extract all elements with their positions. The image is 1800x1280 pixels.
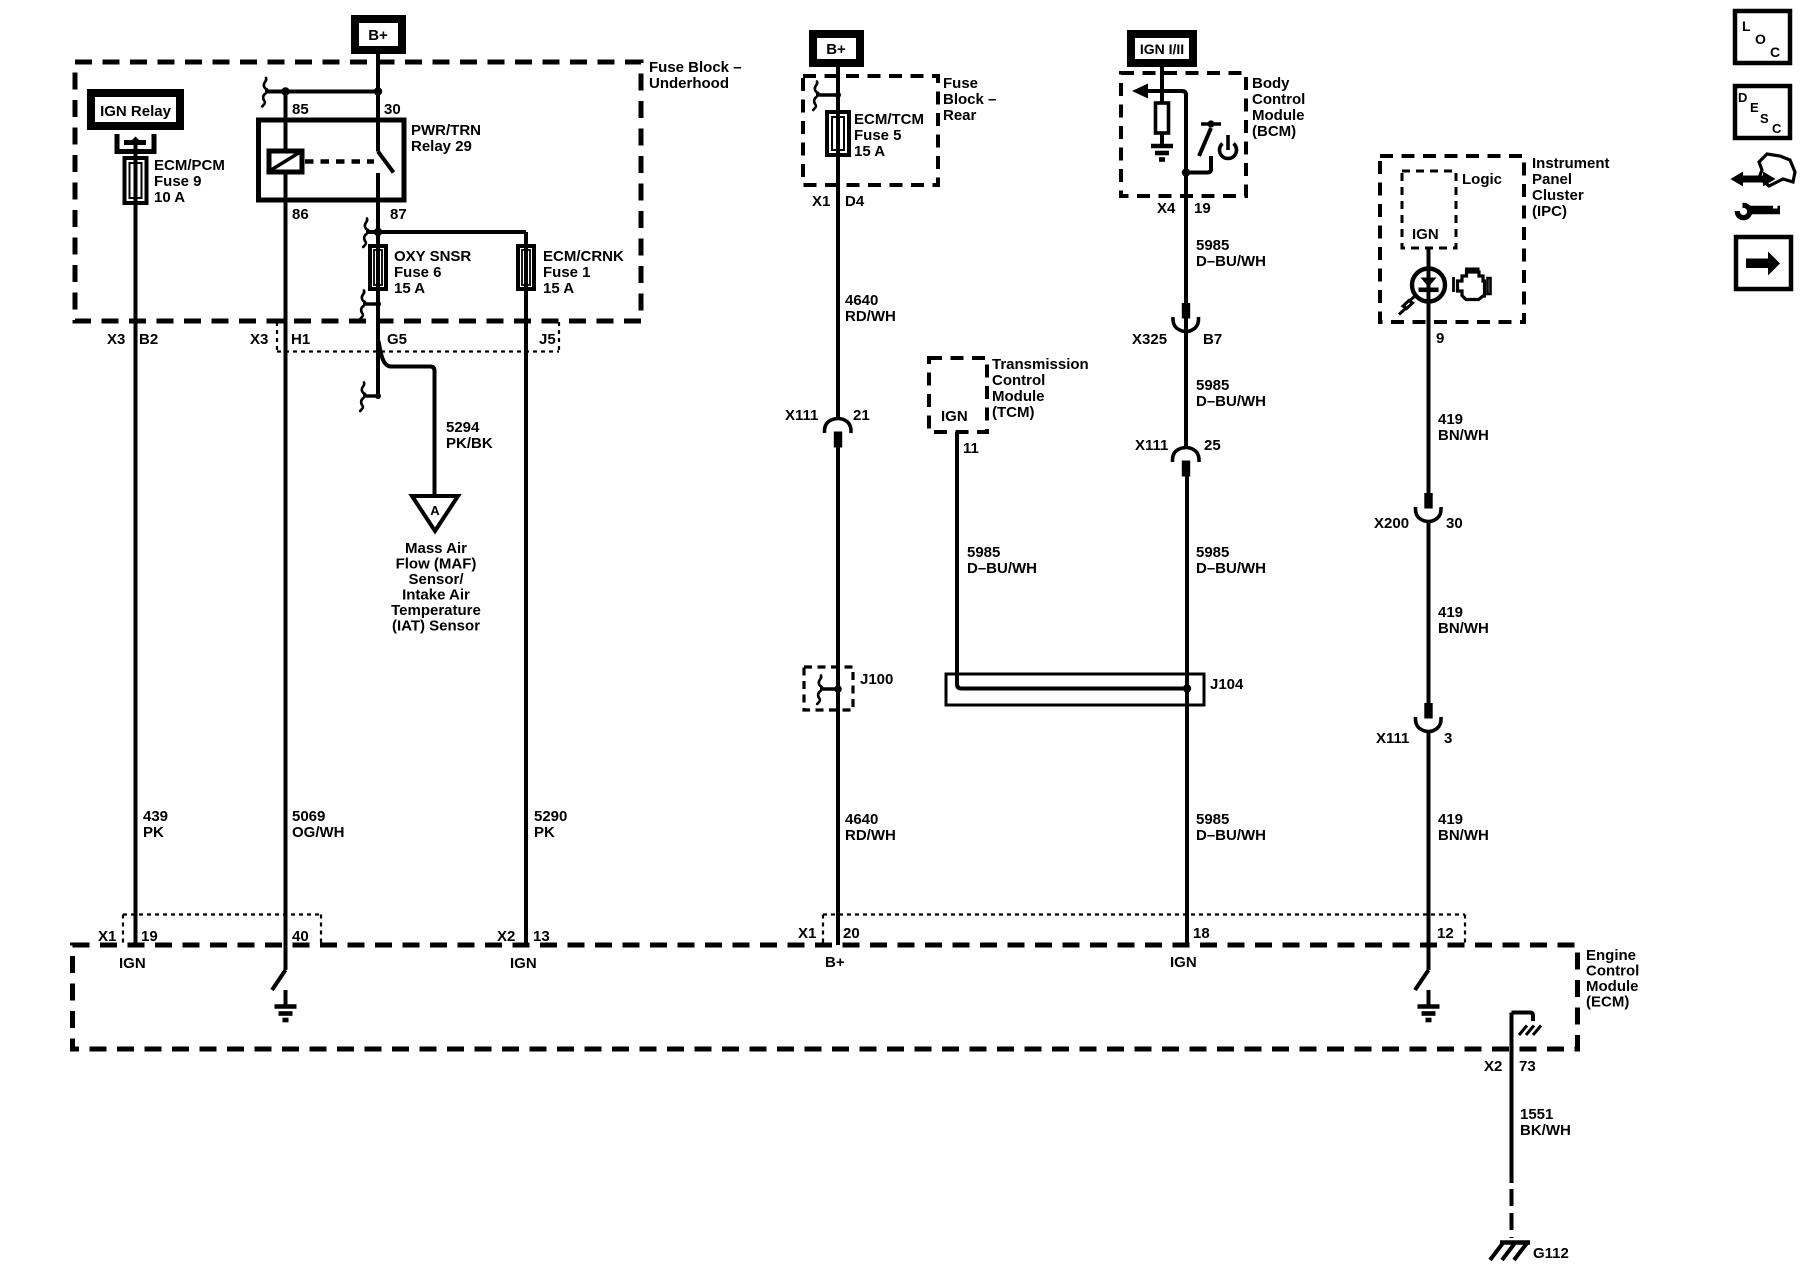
fuse F5 ECM/TCM Fuse 5 15A (827, 112, 849, 155)
relay K PWR/TRN Relay 29 box (259, 120, 405, 200)
svg-text:C: C (1770, 44, 1780, 60)
svg-text:10 A: 10 A (154, 189, 185, 206)
svg-text:419: 419 (1438, 604, 1463, 621)
svg-text:Instrument: Instrument (1532, 155, 1610, 172)
node B+ (rear feed) (809, 30, 864, 67)
connector label X111 25 (1135, 437, 1221, 454)
svg-text:BN/WH: BN/WH (1438, 620, 1489, 637)
hook continuation in J100 (817, 676, 842, 705)
svg-text:15 A: 15 A (854, 143, 885, 160)
wire pin87 to fuse1 (366, 230, 526, 234)
inline connector X111 terminal 3 (1415, 703, 1441, 732)
indicator lamp (LED) (1399, 269, 1445, 315)
svg-text:O: O (1755, 31, 1766, 47)
relay label PWR/TRN Relay 29 (411, 122, 481, 155)
svg-text:B+: B+ (826, 41, 846, 58)
svg-text:5985: 5985 (1196, 544, 1229, 561)
fuse F9 ECM/PCM Fuse 9 10A (125, 158, 147, 203)
svg-text:4640: 4640 (845, 292, 878, 309)
svg-text:(BCM): (BCM) (1252, 123, 1296, 140)
pin label X3 B2 (107, 331, 158, 348)
svg-text:Sensor/: Sensor/ (408, 571, 464, 588)
svg-text:B+: B+ (825, 954, 845, 971)
svg-text:15 A: 15 A (394, 280, 425, 297)
svg-text:5294: 5294 (446, 419, 480, 436)
svg-text:(TCM): (TCM) (992, 404, 1034, 421)
internal switch to ground (pin 12) (1415, 945, 1429, 990)
svg-text:B+: B+ (368, 27, 388, 44)
inline connector X200 terminal 30 (1415, 493, 1441, 522)
svg-text:15 A: 15 A (543, 280, 574, 297)
fuse block underhood box (75, 62, 641, 321)
svg-text:X1: X1 (98, 928, 116, 945)
junction node (1182, 168, 1190, 176)
svg-text:21: 21 (853, 407, 870, 424)
svg-text:(ECM): (ECM) (1586, 994, 1629, 1011)
svg-text:5985: 5985 (1196, 377, 1229, 394)
svg-text:X4: X4 (1157, 200, 1176, 217)
svg-text:J100: J100 (860, 671, 893, 688)
svg-text:ECM/TCM: ECM/TCM (854, 111, 924, 128)
svg-text:G5: G5 (387, 331, 407, 348)
pin label X3 H1 (250, 331, 310, 348)
wiring navigation icon (arrows over connector with wrench) (1731, 154, 1796, 218)
wire 419 BN/WH upper (1427, 301, 1431, 494)
svg-text:B2: B2 (139, 331, 158, 348)
wire label 5985 D-BU/WH (TCM) (967, 544, 1037, 577)
TCM box (929, 358, 987, 432)
svg-text:PK: PK (143, 824, 164, 841)
svg-text:Fuse 5: Fuse 5 (854, 127, 902, 144)
svg-text:1551: 1551 (1520, 1106, 1553, 1123)
svg-text:IGN: IGN (941, 408, 968, 425)
svg-text:A: A (430, 503, 440, 518)
connector bracket under IGN relay (117, 134, 154, 158)
wire label 5985 D-BU/WH (lower) (1196, 544, 1266, 577)
svg-text:Transmission: Transmission (992, 356, 1089, 373)
svg-text:40: 40 (292, 928, 309, 945)
svg-text:Relay 29: Relay 29 (411, 138, 472, 155)
svg-text:X2: X2 (497, 928, 515, 945)
wire 439 PK (fuse9 to ECM pin 19) (134, 203, 138, 945)
svg-text:Control: Control (1252, 91, 1305, 108)
wire 5985 BCM to X325 (1184, 173, 1188, 449)
svg-text:D–BU/WH: D–BU/WH (1196, 393, 1266, 410)
fuse F9 value label (154, 157, 225, 206)
svg-text:87: 87 (390, 206, 407, 223)
node B+ (underhood feed) (351, 15, 406, 54)
svg-text:Intake Air: Intake Air (402, 587, 470, 604)
TCM label (992, 356, 1089, 421)
svg-text:X3: X3 (250, 331, 268, 348)
forward arrow nav button (1736, 237, 1791, 289)
svg-text:IGN: IGN (119, 955, 146, 972)
svg-text:Body: Body (1252, 75, 1290, 92)
svg-text:18: 18 (1193, 925, 1210, 942)
ECM label (1586, 947, 1639, 1011)
hook continuation in rear fuse block (813, 82, 841, 111)
wire label 5985 D-BU/WH (mid) (1196, 377, 1266, 410)
junction node (281, 87, 289, 95)
wire 419 BN/WH mid (1427, 520, 1431, 704)
hook continuation below fuse6 (360, 291, 381, 320)
svg-text:ECM/PCM: ECM/PCM (154, 157, 225, 174)
svg-text:Mass Air: Mass Air (405, 540, 467, 557)
svg-text:X111: X111 (1135, 437, 1168, 454)
fuse block rear box (803, 76, 938, 185)
junction node (374, 228, 382, 236)
svg-text:Fuse 1: Fuse 1 (543, 264, 591, 281)
wire with left arrow (internal feed) (1132, 84, 1186, 173)
fuse F1 ECM/CRNK Fuse 1 15A (518, 246, 534, 289)
svg-text:D–BU/WH: D–BU/WH (1196, 827, 1266, 844)
svg-text:Panel: Panel (1532, 171, 1572, 188)
svg-text:30: 30 (1446, 515, 1463, 532)
connector label X200 30 (1374, 515, 1463, 532)
svg-text:12: 12 (1437, 925, 1454, 942)
wire label 5985 D-BU/WH (BCM) (1196, 237, 1266, 270)
svg-text:J5: J5 (539, 331, 556, 348)
wire label 439 PK (143, 808, 168, 841)
svg-text:PK: PK (534, 824, 555, 841)
wire 5985 to ECM pin 18 (1185, 476, 1189, 945)
svg-text:Rear: Rear (943, 107, 977, 124)
junction node (374, 87, 382, 95)
svg-text:3: 3 (1444, 730, 1452, 747)
svg-text:4640: 4640 (845, 811, 878, 828)
svg-text:H1: H1 (291, 331, 310, 348)
svg-text:BN/WH: BN/WH (1438, 427, 1489, 444)
svg-text:Control: Control (992, 372, 1045, 389)
svg-text:85: 85 (292, 101, 309, 118)
pin label X1 D4 (812, 193, 865, 210)
hook continuation at 87 node (363, 219, 368, 248)
hook continuation at wire end (360, 383, 381, 412)
fuse F5 value label (854, 111, 924, 160)
svg-text:Module: Module (1252, 107, 1305, 124)
svg-text:Logic: Logic (1462, 171, 1502, 188)
svg-text:D4: D4 (845, 193, 865, 210)
node IGN I/II (1127, 30, 1197, 67)
wire IGN I/II into BCM (1160, 67, 1164, 102)
fuse ECM/CRNK feed wire (524, 232, 528, 246)
svg-text:Module: Module (992, 388, 1045, 405)
IPC logic box (1402, 171, 1456, 248)
svg-text:ECM/CRNK: ECM/CRNK (543, 248, 624, 265)
svg-text:5985: 5985 (1196, 237, 1229, 254)
wire 5294 to MAF sensor (379, 341, 435, 497)
connector strip X1 (pins 19 40) (123, 915, 321, 946)
svg-text:5069: 5069 (292, 808, 325, 825)
ECM box (73, 945, 1578, 1049)
wire B+ to relay pin 30 (376, 54, 380, 152)
svg-text:D: D (1738, 90, 1747, 105)
wire label 419 BN/WH bottom (1438, 811, 1489, 844)
BCM box (1121, 73, 1246, 196)
svg-text:IGN: IGN (1412, 226, 1439, 243)
svg-text:Fuse 6: Fuse 6 (394, 264, 442, 281)
svg-text:E: E (1750, 100, 1759, 115)
splice J104 box (946, 674, 1204, 705)
svg-text:X200: X200 (1374, 515, 1409, 532)
svg-text:30: 30 (384, 101, 401, 118)
svg-text:19: 19 (1194, 200, 1211, 217)
hook continuation at 85 branch (262, 78, 267, 107)
svg-text:S: S (1760, 111, 1769, 126)
fuse block underhood label (649, 59, 742, 92)
fuse F6 OXY SNSR Fuse 6 15A (370, 246, 386, 289)
svg-text:OXY SNSR: OXY SNSR (394, 248, 471, 265)
wire label 5290 PK (534, 808, 567, 841)
wire label 419 BN/WH (1438, 411, 1489, 444)
svg-text:19: 19 (141, 928, 158, 945)
svg-text:X2: X2 (1484, 1058, 1502, 1075)
ground (pin 40) (275, 990, 297, 1020)
svg-text:Fuse 9: Fuse 9 (154, 173, 202, 190)
pin label X2 73 (1484, 1058, 1536, 1075)
svg-text:L: L (1742, 18, 1751, 34)
inline connector X111 terminal 21 (824, 419, 851, 448)
svg-text:BN/WH: BN/WH (1438, 827, 1489, 844)
svg-text:419: 419 (1438, 411, 1463, 428)
svg-text:BK/WH: BK/WH (1520, 1122, 1571, 1139)
IPC label (1532, 155, 1610, 220)
svg-text:11: 11 (963, 440, 979, 457)
svg-text:X3: X3 (107, 331, 125, 348)
wire label 4640 RD/WH (845, 292, 896, 325)
power symbol in BCM (1219, 135, 1236, 158)
resistor in BCM (1156, 103, 1169, 133)
wire 5290 PK (fuse1 to ECM pin 13) (524, 289, 528, 945)
svg-text:5290: 5290 (534, 808, 567, 825)
svg-text:IGN: IGN (1170, 954, 1197, 971)
svg-text:PK/BK: PK/BK (446, 435, 493, 452)
svg-text:Fuse Block –: Fuse Block – (649, 59, 742, 76)
svg-text:IGN I/II: IGN I/II (1140, 41, 1184, 57)
svg-text:73: 73 (1519, 1058, 1536, 1075)
wire label 419 BN/WH mid (1438, 604, 1489, 637)
relay switch blade (378, 152, 394, 173)
svg-text:D–BU/WH: D–BU/WH (1196, 253, 1266, 270)
wire relay pin 87 down (376, 173, 380, 246)
junction node in J104 (1183, 684, 1191, 692)
wire B+ to fuse5 (836, 67, 840, 112)
svg-text:X111: X111 (1376, 730, 1409, 747)
wire 1551 BK/WH (1510, 1013, 1514, 1184)
svg-text:9: 9 (1436, 330, 1444, 347)
svg-text:X111: X111 (785, 407, 818, 424)
svg-text:RD/WH: RD/WH (845, 827, 896, 844)
svg-text:5985: 5985 (967, 544, 1000, 561)
wire label 1551 BK/WH (1520, 1106, 1571, 1139)
svg-text:G112: G112 (1533, 1245, 1569, 1262)
wire resistor to ground (1160, 134, 1164, 146)
ground in BCM (1151, 146, 1173, 160)
svg-text:Underhood: Underhood (649, 75, 729, 92)
svg-text:13: 13 (533, 928, 550, 945)
svg-text:D–BU/WH: D–BU/WH (967, 560, 1037, 577)
svg-text:25: 25 (1204, 437, 1221, 454)
svg-text:5985: 5985 (1196, 811, 1229, 828)
LOC nav button (1735, 11, 1790, 63)
svg-text:X1: X1 (798, 925, 816, 942)
svg-text:IGN: IGN (510, 955, 537, 972)
pin label X4 19 (1157, 200, 1211, 217)
svg-text:20: 20 (843, 925, 860, 942)
chassis ground inside ECM (1512, 1013, 1542, 1036)
svg-text:X1: X1 (812, 193, 830, 210)
switch in BCM (1186, 120, 1221, 172)
wire 5985 from TCM to J104 (957, 432, 1187, 689)
svg-text:Cluster: Cluster (1532, 187, 1584, 204)
svg-text:86: 86 (292, 206, 309, 223)
svg-text:Temperature: Temperature (391, 602, 481, 619)
wire fuse6 down to G5 (376, 289, 380, 396)
svg-text:X325: X325 (1132, 331, 1167, 348)
pin label X1 20 (798, 925, 860, 942)
wire 4640 RD/WH upper (836, 155, 840, 420)
wire to relay coil (pin 85) (284, 92, 288, 152)
wire label 4640 RD/WH lower (845, 811, 896, 844)
MAF/IAT sensor label (391, 540, 481, 635)
connector label X325 B7 (1132, 331, 1222, 348)
wire 419 BN/WH to ECM pin 12 (1427, 730, 1431, 945)
BCM label (1252, 75, 1305, 140)
connector strip X1 (pins 20 18 12) (823, 915, 1465, 946)
inline connector X325 terminal B7 (1173, 303, 1199, 332)
wire dashed to G112 (1510, 1189, 1514, 1238)
wire label 5985 D-BU/WH (bottom) (1196, 811, 1266, 844)
relay coil (267, 150, 304, 173)
engine pictograph icon (1454, 269, 1491, 300)
wire 4640 RD/WH lower (836, 446, 840, 945)
wire logic to indicator (1427, 248, 1431, 270)
splice J100 box (804, 667, 853, 710)
connector label X111 3 (1376, 730, 1452, 747)
svg-text:Block –: Block – (943, 91, 996, 108)
svg-text:Engine: Engine (1586, 947, 1636, 964)
ground G112 (1490, 1243, 1530, 1261)
svg-text:OG/WH: OG/WH (292, 824, 345, 841)
wire relay pin 85 branch (265, 90, 378, 94)
DESC nav button (1735, 86, 1790, 138)
svg-text:(IPC): (IPC) (1532, 203, 1567, 220)
svg-text:Module: Module (1586, 978, 1639, 995)
svg-text:Flow (MAF): Flow (MAF) (396, 556, 477, 573)
svg-text:Control: Control (1586, 963, 1639, 980)
connector strip X3 (H1 G5 J5) (277, 322, 559, 352)
svg-text:B7: B7 (1203, 331, 1222, 348)
svg-text:Fuse: Fuse (943, 75, 978, 92)
off-page arrow A to MAF sensor (412, 496, 458, 531)
IPC box (1380, 156, 1524, 322)
internal switch to ground (pin 40) (272, 945, 286, 990)
svg-text:419: 419 (1438, 811, 1463, 828)
inline connector X111 terminal 25 (1172, 448, 1199, 477)
pin label X2 13 (497, 928, 550, 945)
wire label 5294 PK/BK (446, 419, 493, 452)
svg-text:C: C (1772, 121, 1782, 136)
svg-text:439: 439 (143, 808, 168, 825)
wire label 5069 OG/WH (292, 808, 345, 841)
relay actuation dashed link (305, 159, 374, 164)
fuse block rear label (943, 75, 996, 124)
ground (pin 12) (1418, 990, 1440, 1020)
svg-text:PWR/TRN: PWR/TRN (411, 122, 481, 139)
wire relay pin 86 down (5069) (284, 172, 288, 945)
pin label X1 19 (98, 928, 158, 945)
svg-text:(IAT) Sensor: (IAT) Sensor (392, 618, 480, 635)
IGN Relay label box (87, 89, 184, 130)
svg-text:J104: J104 (1210, 676, 1244, 693)
fuse F6 value label (394, 248, 471, 297)
svg-text:IGN Relay: IGN Relay (100, 103, 172, 120)
svg-text:D–BU/WH: D–BU/WH (1196, 560, 1266, 577)
fuse F1 value label (543, 248, 624, 297)
connector label X111 21 (785, 407, 870, 424)
svg-text:RD/WH: RD/WH (845, 308, 896, 325)
